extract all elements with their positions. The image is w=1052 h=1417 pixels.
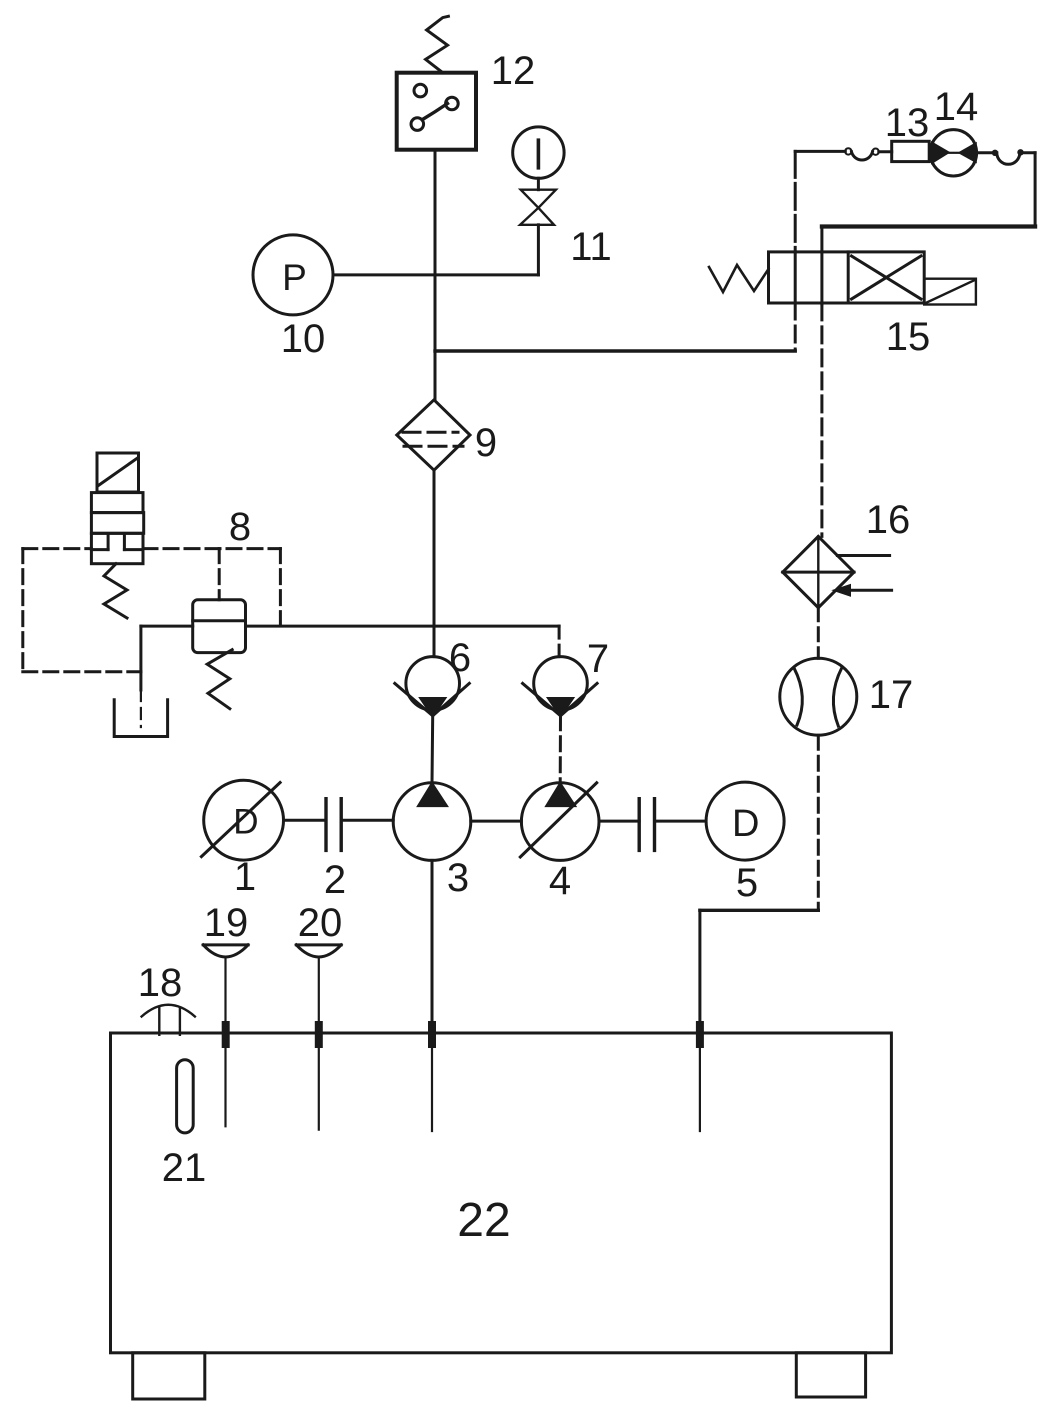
svg-text:P: P [282,257,307,298]
svg-text:D: D [233,803,258,842]
svg-text:10: 10 [281,317,326,361]
svg-text:16: 16 [866,498,911,542]
svg-text:2: 2 [324,858,346,902]
svg-text:9: 9 [475,421,497,465]
svg-text:4: 4 [549,859,571,903]
svg-text:13: 13 [885,101,930,145]
svg-text:11: 11 [570,225,612,269]
svg-text:15: 15 [886,315,931,359]
svg-text:20: 20 [298,901,343,945]
svg-text:19: 19 [204,901,249,945]
svg-text:5: 5 [736,861,758,905]
svg-text:8: 8 [229,505,251,549]
svg-text:1: 1 [234,855,256,899]
svg-text:17: 17 [869,673,914,717]
svg-text:22: 22 [457,1194,510,1247]
svg-text:7: 7 [587,637,609,681]
svg-text:21: 21 [162,1146,207,1190]
svg-text:18: 18 [138,961,183,1005]
svg-text:6: 6 [449,636,471,680]
svg-text:3: 3 [447,856,469,900]
svg-text:12: 12 [491,49,536,93]
svg-text:D: D [732,803,759,845]
svg-text:14: 14 [934,85,979,129]
